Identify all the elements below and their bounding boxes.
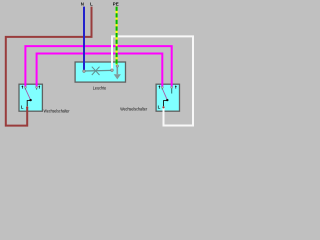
svg-text:L: L — [21, 104, 24, 109]
S2 terminal arrow right — [175, 85, 177, 88]
wire lamp return (white: lamp to S2 common around right side) — [112, 36, 193, 125]
node PE — [116, 65, 119, 68]
svg-text:Wechselschalter: Wechselschalter — [120, 106, 147, 111]
S2 common link — [164, 101, 168, 107]
wire traveler 2 (magenta inner: S1 right terminal to S2 left terminal) — [37, 54, 163, 88]
S1 terminal node right — [36, 86, 38, 88]
S1 terminal node left — [24, 86, 26, 88]
S1 terminal arrow left — [21, 85, 23, 88]
svg-text:L: L — [90, 2, 93, 7]
S2 pivot — [166, 99, 168, 101]
S1 common terminal (red) — [26, 106, 28, 108]
S2 terminal node right — [171, 86, 173, 88]
S1 common link — [27, 101, 30, 107]
node lamp-N — [83, 70, 86, 73]
S1 lever — [26, 90, 31, 100]
S2 terminal node left — [161, 86, 163, 88]
lamp internal wire — [84, 69, 112, 72]
S1 terminal stub left — [24, 87, 26, 90]
switch box S1 (left Wechselschalter) — [19, 84, 42, 111]
svg-text:PE: PE — [113, 2, 119, 7]
PE earth arrow in lamp — [116, 66, 118, 75]
svg-text:L: L — [158, 104, 161, 109]
wire L (brown: from L feed down left side to S1 common) — [6, 7, 92, 126]
svg-text:Leuchte: Leuchte — [93, 86, 107, 91]
wire N (blue: from N feed into lamp) — [83, 7, 85, 71]
S2 terminal stub left — [161, 87, 163, 90]
node lamp-return — [111, 69, 114, 72]
S2 terminal arrow left — [158, 85, 160, 88]
S1 pivot — [29, 99, 31, 101]
wire PE (green/yellow dashed: into lamp earth) — [116, 7, 118, 65]
lamp box (Leuchte) — [75, 62, 125, 82]
svg-text:Wechselschalter: Wechselschalter — [44, 108, 70, 113]
S2 terminal stub right — [171, 87, 173, 94]
svg-text:N: N — [81, 2, 84, 7]
wire traveler 1 (magenta outer: S1 left terminal to S2 right terminal) — [25, 46, 171, 87]
S1 terminal stub right — [36, 87, 38, 90]
S2 lever — [163, 90, 168, 100]
switch box S2 (right Wechselschalter) — [156, 84, 179, 111]
S2 common terminal (red) — [162, 106, 164, 108]
lamp E1 (cross symbol) — [92, 67, 100, 75]
S1 terminal arrow right — [38, 85, 40, 88]
